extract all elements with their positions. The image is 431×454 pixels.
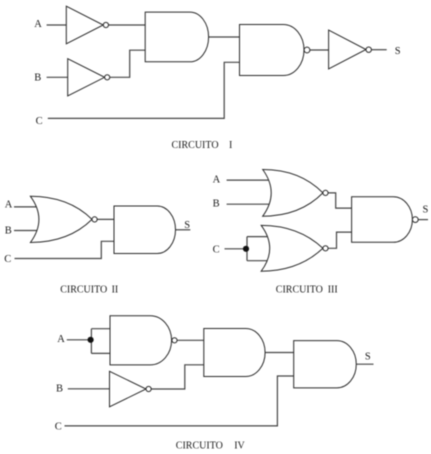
svg-text:B: B	[213, 199, 220, 210]
svg-text:C: C	[213, 244, 220, 255]
svg-text:S: S	[184, 220, 190, 231]
svg-text:IV: IV	[234, 440, 245, 451]
svg-text:I: I	[229, 140, 232, 151]
svg-text:C: C	[55, 422, 62, 433]
svg-text:B: B	[5, 226, 12, 237]
svg-text:B: B	[56, 384, 63, 395]
svg-text:S: S	[395, 46, 401, 57]
svg-text:C: C	[36, 116, 43, 127]
svg-text:A: A	[34, 19, 42, 30]
svg-text:CIRCUITO: CIRCUITO	[172, 140, 219, 151]
svg-text:A: A	[5, 200, 13, 211]
svg-text:B: B	[34, 73, 41, 84]
svg-text:S: S	[365, 351, 371, 362]
svg-text:CIRCUITO: CIRCUITO	[60, 284, 107, 295]
svg-text:S: S	[423, 204, 429, 215]
svg-text:CIRCUITO: CIRCUITO	[276, 284, 323, 295]
svg-text:C: C	[4, 254, 11, 265]
svg-text:A: A	[57, 334, 65, 345]
svg-text:III: III	[328, 284, 338, 295]
svg-text:II: II	[112, 284, 119, 295]
svg-text:A: A	[213, 175, 221, 186]
svg-text:CIRCUITO: CIRCUITO	[176, 440, 223, 451]
